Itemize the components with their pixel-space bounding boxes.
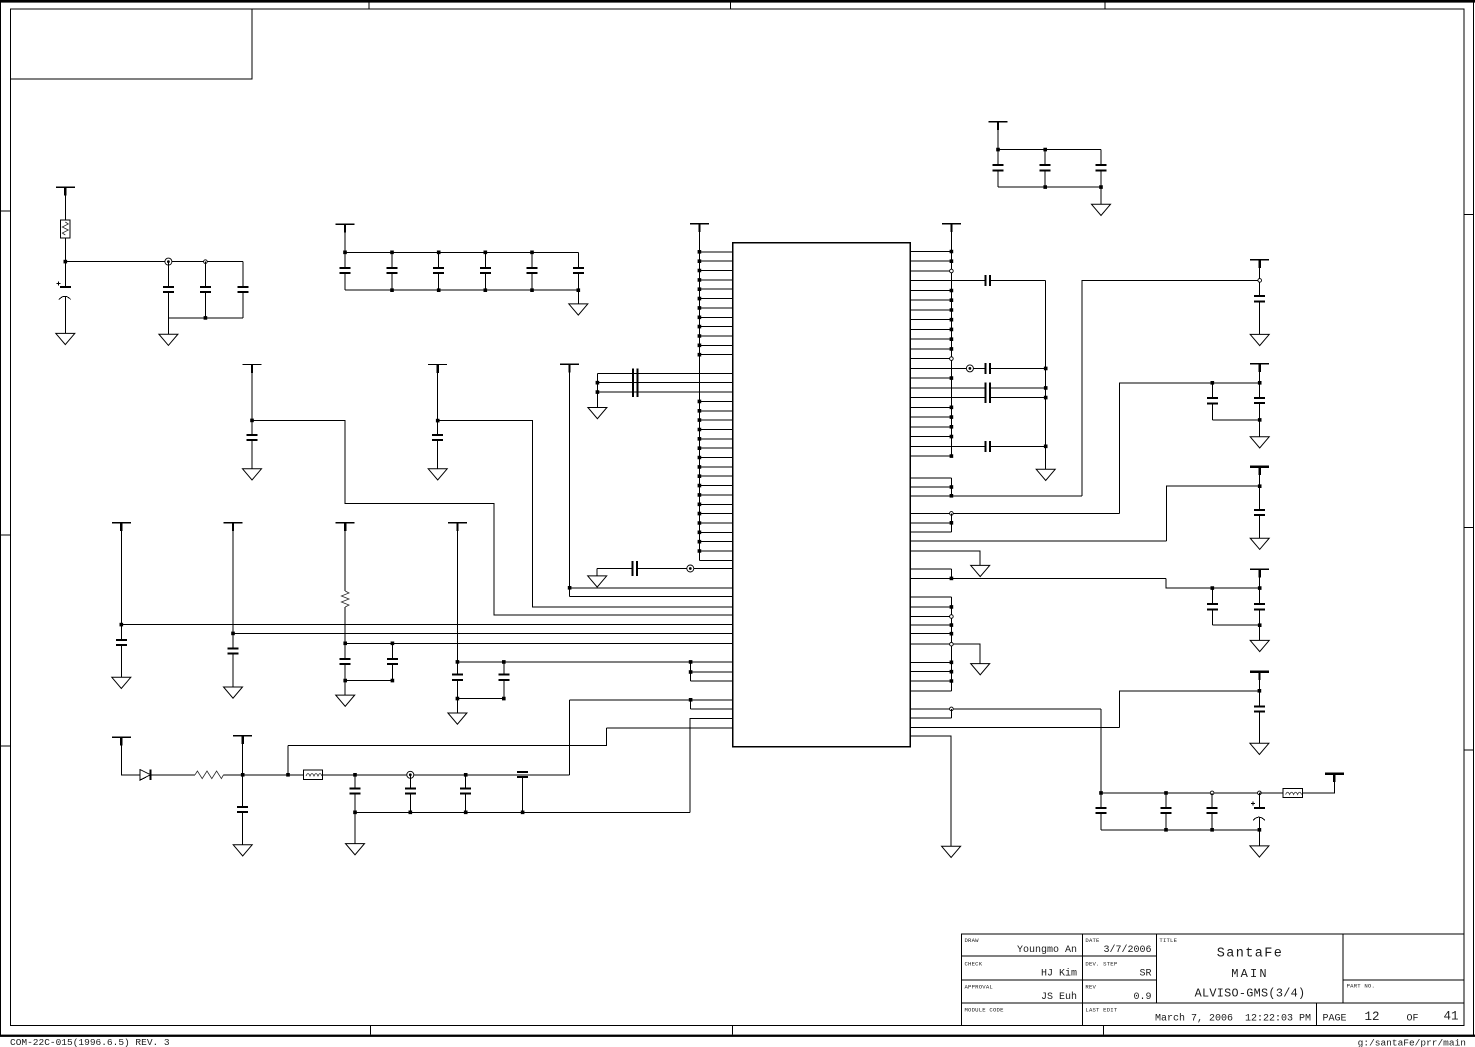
resistor R1 leads	[64, 187, 66, 261]
capacitor C29	[1207, 604, 1218, 609]
power symbol G9	[243, 364, 262, 366]
ferrite bead FB1	[303, 770, 322, 780]
open circle row 644.2	[950, 642, 954, 646]
open circle G3	[204, 260, 208, 264]
big series capacitor C16 plates	[633, 368, 638, 396]
riser wire up to row 690.8	[1120, 691, 1260, 728]
capacitor C36b	[387, 659, 398, 664]
capacitor C18 leads	[120, 625, 122, 678]
capacitor C15 leads	[437, 421, 439, 469]
polarized capacitor C4 leads	[64, 262, 66, 334]
border zone tick top 2	[1104, 3, 1106, 10]
capacitor C15	[432, 435, 443, 440]
capacitor C21 series plates	[986, 363, 991, 374]
svg-text:PAGE: PAGE	[1323, 1014, 1347, 1025]
capacitor C41 leads	[465, 775, 467, 813]
border zone tick left 3	[1, 745, 11, 747]
left pin bus	[698, 224, 700, 561]
svg-text:DEV. STEP: DEV. STEP	[1085, 960, 1117, 967]
stem top cap bank	[344, 224, 346, 252]
trident bus dots	[596, 383, 600, 392]
vertical net wire joining series caps	[1045, 281, 1047, 470]
bottom cap bank bottom bus dots	[1166, 828, 1259, 832]
junction dot net V4 bus	[1258, 623, 1262, 627]
junction dot C36 top	[391, 641, 395, 645]
ferrite bead FB2	[1283, 789, 1303, 798]
border zone tick bottom 2	[731, 1026, 733, 1035]
power symbol net V2	[1250, 363, 1269, 365]
wire row 708.9 to IC	[691, 708, 733, 710]
bottom bus dots G2 group	[204, 316, 208, 320]
ground elbow row 644.2	[971, 664, 990, 675]
IC U1 body	[733, 243, 911, 747]
title block column divider 2	[1155, 934, 1157, 1003]
junction dot row 495.8	[950, 494, 954, 498]
junction dots net V4	[1212, 586, 1259, 590]
capacitor C29 leads	[1211, 588, 1213, 625]
ground stem G2	[167, 318, 169, 334]
step wire down to row 745.6	[288, 728, 606, 746]
wire ferrite FB2 to power	[1302, 774, 1334, 793]
capacitor C1	[993, 165, 1004, 170]
border zone tick top 0	[368, 3, 370, 10]
power symbol G8	[448, 522, 467, 524]
ground net V3	[1250, 538, 1269, 549]
capacitor C19 leads	[232, 633, 234, 687]
capacitor C36a	[340, 659, 351, 664]
svg-text:DATE: DATE	[1085, 937, 1100, 944]
capacitor C42 plates on wire	[517, 772, 528, 777]
capacitor C7	[238, 287, 249, 292]
capacitor C12	[527, 268, 538, 273]
wire row 718.3 from ground bus riser	[690, 718, 732, 812]
top right bottom bus dots	[1045, 185, 1101, 189]
stem G8	[456, 523, 458, 662]
power symbol above left pin bus	[690, 223, 709, 225]
stem G7 upper	[344, 523, 346, 591]
svg-text:DRAW: DRAW	[965, 937, 980, 944]
power symbol net V4	[1250, 568, 1269, 570]
capacitor C11 leads	[484, 252, 486, 290]
svg-text:TITLE: TITLE	[1159, 937, 1177, 944]
power symbol at main node	[233, 735, 252, 737]
sheet outer border left	[0, 0, 2, 1036]
top right ground	[1092, 204, 1111, 215]
wire row 541.2 to riser	[910, 540, 1166, 542]
right pin rows 596.9-691	[910, 597, 951, 691]
stem net V4	[1259, 569, 1261, 604]
power symbol net V1	[1250, 259, 1269, 261]
svg-text:OF: OF	[1407, 1014, 1419, 1025]
wire row 587.8 to IC	[570, 587, 733, 589]
junction dot G7	[343, 641, 347, 645]
power symbol G1	[56, 186, 75, 188]
ground below row 736	[942, 846, 961, 857]
top cap bank top bus	[345, 251, 578, 253]
U1 right pins upper junction dots	[950, 252, 954, 457]
junction dot G9	[250, 419, 254, 423]
svg-text:PART NO.: PART NO.	[1347, 982, 1375, 989]
capacitor C24 series plates	[986, 441, 991, 452]
open circle row 708.9	[950, 707, 954, 711]
capacitor C1 leads	[997, 150, 999, 188]
border zone tick bottom 3	[1102, 1026, 1104, 1035]
junction dot fanout 672	[689, 670, 693, 674]
stem net V1	[1259, 260, 1261, 296]
wire row 568.5 with series cap C17	[597, 568, 732, 570]
top right power symbol	[989, 121, 1008, 123]
diode D1	[140, 770, 150, 780]
svg-text:COM-22C-015(1996.6.5) REV. 3: COM-22C-015(1996.6.5) REV. 3	[10, 1037, 170, 1047]
junction dot riser 288	[286, 773, 290, 777]
node wire G1 row	[65, 261, 243, 263]
title block page cell divider	[1316, 1003, 1318, 1026]
power symbol G5	[112, 522, 131, 524]
bottom bus G7	[345, 680, 392, 682]
wire row 551.2 to ground elbow	[910, 551, 980, 565]
riser wire up to net row 280.4	[1082, 280, 1260, 495]
wire row 661.9 to IC	[457, 661, 732, 663]
capacitor C2	[1040, 165, 1051, 170]
ground net V5	[1250, 743, 1269, 754]
capacitor C26	[1207, 398, 1218, 403]
stem net V3	[1259, 467, 1261, 510]
circled junction cap row	[407, 771, 414, 778]
wire pin row 280.7 to series cap C20	[910, 280, 1045, 282]
border zone tick right 2	[1464, 526, 1473, 528]
capacitor C5	[163, 287, 174, 292]
stem G6	[232, 523, 234, 634]
bottom cap bank top bus dots	[1101, 791, 1166, 795]
border zone tick left 2	[1, 534, 11, 536]
wire pin row 368.4 to series cap C21	[910, 367, 1045, 369]
svg-text:REV: REV	[1085, 984, 1096, 991]
capacitor C25	[1254, 296, 1265, 301]
step wire G10 to IC row 607	[438, 421, 733, 607]
capacitor C42 lower lead	[522, 777, 524, 812]
stem to ground V1	[1259, 301, 1261, 334]
ground stem chain	[354, 812, 356, 843]
capacitor C14 leads	[251, 420, 253, 468]
border zone tick top 1	[730, 3, 732, 10]
bold power symbol net V5	[1250, 670, 1269, 673]
junction dot main node	[241, 773, 245, 777]
step wire G9 to IC row 614.8	[252, 420, 733, 614]
circled junction on row 368.4	[966, 365, 973, 372]
wire pin row 387.9 to series cap C22	[910, 387, 1045, 389]
capacitor C11	[480, 268, 491, 273]
ground top cap bank	[569, 304, 588, 315]
top cap bank bottom bus	[345, 289, 578, 291]
capacitor C37a	[452, 675, 463, 680]
wire row 513.4 to riser	[910, 512, 1119, 514]
bottom bus dots	[392, 288, 578, 292]
right pin row 717.9	[910, 717, 951, 719]
ground stem G7	[344, 681, 346, 696]
bold power symbol net V3	[1250, 465, 1269, 468]
svg-text:SantaFe: SantaFe	[1217, 947, 1284, 962]
capacitor C37b leads	[503, 662, 505, 699]
border zone tick right 1	[1464, 213, 1473, 215]
trident bus	[596, 373, 598, 407]
top right power stem	[997, 122, 999, 150]
svg-text:MODULE CODE: MODULE CODE	[965, 1007, 1005, 1014]
power symbol G11	[560, 363, 579, 365]
wire node to ferrite FB1	[288, 774, 303, 776]
capacitor C30 lower lead	[1259, 609, 1261, 625]
svg-text:ALVISO-GMS(3/4): ALVISO-GMS(3/4)	[1195, 987, 1306, 1001]
wire pin row 397.6 to series cap C23	[910, 397, 1045, 399]
capacitor C5 leads	[167, 262, 169, 318]
bottom bus net V4	[1212, 624, 1259, 626]
svg-text:12: 12	[1364, 1010, 1379, 1024]
junction dot G10	[436, 419, 440, 423]
capacitor C27	[1254, 398, 1265, 403]
ground chain	[346, 844, 365, 855]
bottom bus G2 group	[168, 317, 243, 319]
capacitor C12 leads	[531, 252, 533, 290]
wire row 624.6 to IC	[121, 624, 732, 626]
wire cap bank to ferrite FB2	[1259, 792, 1282, 794]
bottom cap bank top bus	[1101, 792, 1259, 794]
capacitor C3	[1096, 165, 1107, 170]
top right top bus dots	[998, 148, 1045, 152]
junction dots on bus segment	[950, 607, 954, 681]
wire row 596.5 to IC	[570, 596, 733, 598]
ground net V1	[1250, 334, 1269, 345]
top right ground stem	[1100, 187, 1102, 204]
stem to ground V4	[1259, 625, 1261, 640]
wire pin row 446.3 to series cap C24	[910, 445, 1045, 447]
svg-text:3/7/2006: 3/7/2006	[1103, 944, 1151, 956]
cap bank riser wire	[1100, 709, 1102, 793]
svg-text:0.9: 0.9	[1133, 992, 1151, 1003]
capacitor C6	[200, 287, 211, 292]
riser wire up to net row 382.8	[1120, 383, 1260, 514]
capacitor C27 lower lead	[1259, 403, 1261, 420]
capacitor C38	[237, 807, 248, 812]
ground bus bottom	[355, 811, 690, 813]
capacitor C13 leads	[577, 252, 579, 290]
wire ferrite to cap row	[323, 774, 570, 776]
wire row 495.8 to riser	[910, 495, 1082, 497]
capacitor C41	[460, 788, 471, 793]
resistor R3	[195, 771, 224, 779]
capacitor C7 leads	[242, 262, 244, 318]
svg-text:Youngmo An: Youngmo An	[1017, 945, 1077, 956]
border zone tick left 1	[1, 210, 11, 212]
stem G9	[251, 365, 253, 421]
open circle row 616.5	[950, 615, 954, 619]
capacitor C40	[405, 788, 416, 793]
ground elbow row 551.2	[971, 565, 990, 576]
junction dot G5	[120, 623, 124, 627]
capacitor C2 leads	[1044, 150, 1046, 188]
power symbol G7	[336, 522, 355, 524]
junction dot G8	[456, 660, 460, 664]
U1 left pins group B	[699, 401, 732, 560]
title block column divider 1	[1081, 934, 1083, 1025]
capacitor C9	[387, 268, 398, 273]
right bus segment 513.4-531.9	[950, 513, 952, 532]
bottom cap bank bottom bus	[1101, 829, 1259, 831]
capacitor C14	[247, 435, 258, 440]
polarized capacitor C4	[60, 286, 71, 288]
title block row line 3	[962, 1002, 1465, 1004]
capacitor C26 leads	[1211, 383, 1213, 420]
capacitor C8	[340, 268, 351, 273]
svg-text:CHECK: CHECK	[965, 960, 983, 967]
ground G7	[336, 695, 355, 706]
capacitor C18	[116, 640, 127, 645]
polarized capacitor C35 leads	[1258, 793, 1260, 830]
bottom bus G8	[457, 698, 503, 700]
ground G9	[243, 469, 262, 480]
wire row 736 to ground	[910, 736, 951, 846]
svg-text:APPROVAL: APPROVAL	[965, 984, 993, 991]
capacitor C38 leads	[242, 775, 244, 845]
title block column divider 3	[1342, 934, 1344, 1003]
stem net V2	[1259, 364, 1261, 398]
capacitor C13	[573, 268, 584, 273]
junction dots row 661.9	[504, 660, 691, 664]
title block part-no row line	[1343, 979, 1464, 981]
capacitor C34	[1207, 808, 1218, 813]
bottom bus dot G8	[457, 697, 503, 701]
title block outline	[962, 934, 1465, 1025]
ground G2	[159, 334, 178, 345]
capacitor C34 leads	[1211, 793, 1213, 830]
junction dot row 487	[950, 485, 954, 489]
svg-text:MAIN: MAIN	[1231, 967, 1269, 981]
junction dot row 699.8	[689, 698, 693, 702]
svg-text:g:/santaFe/prr/main: g:/santaFe/prr/main	[1358, 1037, 1466, 1047]
capacitor C37a leads	[456, 662, 458, 699]
ground G10	[428, 469, 447, 480]
capacitor C36b leads	[391, 643, 393, 680]
sheet outer border bottom (thick)	[0, 1035, 1475, 1037]
wire row 708.9 to cap bank riser	[910, 708, 1101, 710]
ground stem top cap bank	[577, 290, 579, 304]
stem G5	[120, 523, 122, 625]
ground G6	[224, 687, 243, 698]
capacitor C22 series plates	[986, 382, 991, 393]
junction dot G11 row 587.8	[568, 586, 572, 590]
capacitor C30	[1254, 604, 1265, 609]
svg-text:HJ Kim: HJ Kim	[1041, 968, 1077, 980]
capacitor C3 leads	[1100, 150, 1102, 188]
top right cap bank top bus	[998, 149, 1101, 151]
ground G1	[56, 333, 75, 344]
pin fanout bus at 690.6 upper	[690, 662, 692, 681]
right pin rows 478-487	[910, 478, 951, 487]
capacitor C8 leads	[344, 252, 346, 290]
power symbol G6	[224, 522, 243, 524]
stem to ground V3	[1259, 515, 1261, 538]
wire row 633.4 to IC	[233, 632, 733, 634]
bottom bus net V2	[1212, 419, 1259, 421]
capacitor C20 series plates	[986, 275, 991, 286]
open circle junction V1	[1258, 279, 1262, 283]
ground G5	[112, 677, 131, 688]
capacitor C31	[1254, 706, 1265, 711]
stem G11 down to wire rows	[569, 364, 571, 596]
ground net V2	[1250, 437, 1269, 448]
sheet outer border right	[1472, 0, 1474, 1036]
capacitor C28	[1254, 510, 1265, 515]
bottom cap bank ground stem	[1258, 830, 1260, 846]
open circle row 513.4	[950, 512, 954, 516]
title block row line 2	[962, 979, 1157, 981]
svg-text:41: 41	[1443, 1009, 1458, 1023]
series capacitor C17 plates	[633, 561, 637, 576]
U1 right pin open circle row 271	[950, 269, 954, 273]
circled junction row 568.5	[687, 565, 694, 572]
bottom cap bank ground	[1250, 846, 1269, 857]
revision box top-left	[11, 9, 253, 79]
wire resistor to node	[224, 774, 289, 776]
capacitor C39	[350, 788, 361, 793]
riser wire up to row 745.6	[287, 746, 289, 775]
top bus dots	[345, 251, 532, 255]
bottom cap bank open circles	[1210, 791, 1214, 795]
title block row line 1	[962, 955, 1157, 957]
capacitor C9 leads	[391, 252, 393, 290]
capacitor C33 leads	[1165, 793, 1167, 830]
stem bottom-left power	[121, 737, 140, 775]
junction dot V3	[1258, 484, 1262, 488]
junction dots cap row	[355, 773, 466, 777]
top right cap bank bottom bus	[998, 186, 1101, 188]
junction dot G6	[231, 632, 235, 636]
junction dot V2 wire	[1212, 381, 1259, 385]
wire row 681.1 to IC	[691, 680, 733, 682]
ground below series cap net	[1036, 469, 1055, 480]
power symbol G10	[428, 364, 447, 366]
junction dot row 522.8	[950, 521, 954, 525]
svg-text:LAST EDIT: LAST EDIT	[1085, 1007, 1117, 1014]
trident wire row 392.1	[597, 391, 732, 393]
trident wire row 382.7	[597, 382, 732, 384]
U1 left pins group A	[699, 252, 732, 355]
wire row 699.8 from riser to IC	[569, 699, 732, 701]
U1 left pins group B junction dots	[698, 401, 702, 551]
circled junction G2	[165, 258, 172, 265]
stem power at main node	[242, 736, 244, 775]
ground elbow row 568.5	[596, 569, 598, 576]
ground G8	[448, 713, 467, 724]
bold power symbol bottom right	[1325, 773, 1344, 776]
border zone tick right 3	[1464, 749, 1473, 751]
capacitor C33	[1161, 808, 1172, 813]
right pin rows 522.8-531.9	[910, 523, 951, 532]
capacitor C6 leads	[204, 262, 206, 318]
border zone tick bottom 1	[369, 1026, 371, 1035]
capacitor C40 leads	[409, 775, 411, 813]
step wire down to row 588.1	[1166, 578, 1260, 588]
capacitor C23 series plates	[986, 392, 991, 403]
sheet outer border top (thick)	[0, 0, 1475, 3]
capacitor C32	[1096, 808, 1107, 813]
svg-text:SR: SR	[1139, 969, 1151, 980]
stem to ground V2	[1259, 420, 1261, 437]
bottom bus dot G7	[345, 679, 392, 683]
ground trident	[588, 408, 607, 419]
svg-text:JS Euh: JS Euh	[1041, 991, 1077, 1003]
power symbol bottom-left	[112, 736, 131, 738]
power symbol top cap bank	[336, 223, 355, 225]
wire row 644.2 to ground elbow	[910, 644, 980, 663]
